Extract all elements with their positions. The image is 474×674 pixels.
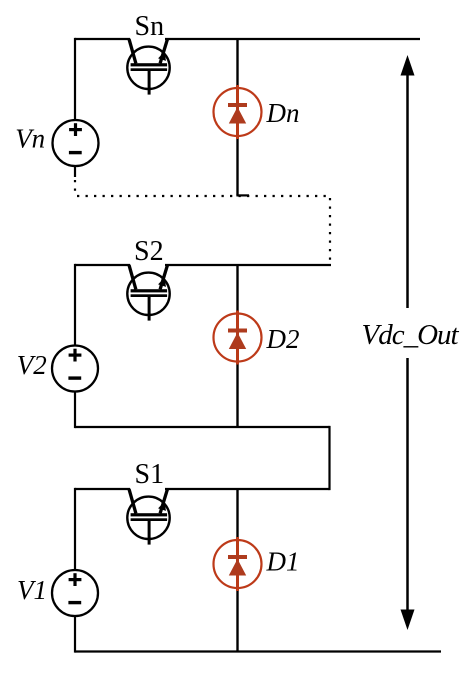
- wire top rail left segment: [75, 38, 130, 40]
- wire stage2 bottom horizontal: [75, 426, 330, 428]
- Vdc_Out arrow bottom head: [401, 610, 415, 631]
- wire stage2 rail right segment: [165, 264, 331, 266]
- svg-text:Vdc_Out: Vdc_Out: [362, 319, 460, 351]
- wire top rail right segment: [165, 38, 420, 40]
- transistor Sn: [127, 39, 169, 95]
- wire right link stage2 to stage1: [328, 426, 330, 490]
- wire dotted vertical below Vn: [74, 180, 76, 196]
- wire Dn branch upper: [236, 39, 238, 85]
- wire left rail stage n: [74, 38, 76, 121]
- wire D1 branch upper: [236, 489, 238, 537]
- Vdc_Out arrow shaft: [406, 73, 409, 612]
- wire D2 branch upper: [236, 265, 238, 311]
- Vdc_Out arrow top head: [401, 55, 415, 76]
- svg-text:S1: S1: [135, 459, 165, 490]
- wire D2 branch lower: [236, 365, 238, 428]
- svg-text:Vn: Vn: [15, 124, 45, 154]
- wire stage1 rail right segment: [165, 488, 330, 490]
- wire bottom rail: [75, 650, 441, 652]
- wire D1 branch lower: [236, 591, 238, 652]
- voltage source V1: [52, 570, 98, 616]
- wire V2 bottom lead: [74, 391, 76, 428]
- svg-text:S2: S2: [134, 236, 164, 267]
- voltage source Vn: [53, 120, 99, 166]
- wire stage2 rail left segment: [75, 264, 130, 266]
- transistor S1: [127, 489, 169, 545]
- svg-text:D2: D2: [266, 324, 300, 354]
- voltage source V2: [52, 346, 98, 392]
- wire left rail stage 2: [74, 264, 76, 346]
- wire dotted horizontal: [77, 195, 330, 197]
- diode Dn: [214, 85, 262, 139]
- diode D2: [214, 311, 262, 365]
- svg-text:V2: V2: [17, 350, 47, 380]
- svg-text:D1: D1: [266, 547, 300, 577]
- transistor S2: [127, 265, 169, 321]
- wire Dn branch foot: [236, 194, 249, 196]
- svg-text:Sn: Sn: [135, 11, 165, 42]
- wire left rail stage 1: [74, 488, 76, 571]
- wire stage1 rail left segment: [75, 488, 130, 490]
- wire Dn branch lower: [236, 139, 238, 195]
- diode D1: [214, 537, 262, 591]
- svg-text:Dn: Dn: [266, 98, 300, 128]
- svg-text:V1: V1: [17, 575, 47, 605]
- wire dotted vertical right link: [329, 198, 331, 263]
- wire Vn bottom lead: [74, 166, 76, 177]
- wire V1 bottom lead: [74, 616, 76, 653]
- Vdc_Out label background: [358, 308, 464, 358]
